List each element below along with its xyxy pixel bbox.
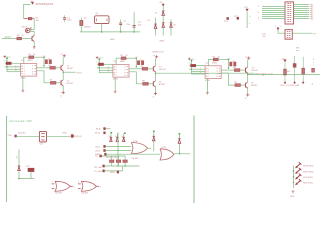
svg-text:OUT1: OUT1: [76, 72, 83, 74]
diode D11: [178, 133, 181, 154]
or-gate G1: [131, 140, 147, 160]
svg-text:IN_B: IN_B: [95, 133, 100, 135]
svg-text:1: 1: [208, 76, 209, 78]
svg-text:4: 4: [313, 59, 314, 61]
resistor R5 block2: [141, 66, 148, 70]
supply +5V block2: [96, 56, 104, 59]
capacitor C5 block2: [140, 59, 143, 64]
transistor T5: [246, 67, 259, 73]
left rail wire block1: [6, 57, 8, 72]
wire T2 emitter block1: [62, 86, 64, 91]
wire row E to G2: [125, 153, 160, 155]
resistor R15: [116, 156, 120, 166]
svg-text:1k: 1k: [33, 54, 35, 56]
transistor T2: [61, 80, 74, 86]
svg-text:74LS32: 74LS32: [81, 193, 89, 195]
svg-text:+5V: +5V: [17, 155, 19, 159]
net stub label B: [234, 16, 239, 20]
svg-text:BC547: BC547: [251, 85, 258, 87]
pullup diode D5: [293, 56, 296, 84]
wire T1 collector block1: [62, 57, 64, 64]
or-gate G4: [78, 181, 101, 194]
supply marker bottom block3: [245, 93, 250, 100]
wire IC pin down block1: [37, 71, 51, 83]
svg-text:RXD: RXD: [63, 133, 68, 135]
svg-text:GND: GND: [290, 196, 295, 198]
svg-text:1: 1: [116, 75, 117, 77]
net flag RXD: [71, 135, 82, 139]
svg-text:BC547: BC547: [159, 84, 166, 86]
svg-text:Not connected = GND: Not connected = GND: [9, 120, 32, 123]
svg-text:3: 3: [73, 187, 74, 189]
net flag row H: [94, 166, 122, 173]
diode D2: [155, 2, 165, 22]
resistor R1: [28, 17, 40, 21]
svg-text:4N35: 4N35: [27, 60, 33, 62]
wire C12 down: [30, 172, 32, 179]
svg-text:8: 8: [217, 71, 218, 73]
resistor R6 block1: [50, 80, 56, 85]
svg-text:1: 1: [258, 6, 259, 8]
net flag row E: [95, 153, 125, 156]
pullup R10: [281, 58, 291, 83]
svg-text:RX_LED: RX_LED: [94, 167, 102, 169]
left rail wire block2: [99, 58, 101, 73]
svg-text:1u: 1u: [140, 59, 142, 61]
wire T4 emitter block2: [155, 87, 157, 92]
label near D1: [148, 20, 152, 22]
svg-text:3: 3: [100, 187, 101, 189]
wire R5 to T5 block3: [240, 69, 246, 71]
resistor R5 block1: [49, 65, 56, 69]
gnd stub block3: [206, 78, 208, 92]
resistor R14: [110, 156, 114, 166]
svg-text:2: 2: [83, 182, 84, 184]
net flag row A: [96, 128, 111, 131]
wire T4 collector block2: [155, 73, 157, 80]
wire T5 collector block3: [247, 60, 249, 67]
diode D7: [109, 134, 113, 142]
svg-text:BC547: BC547: [67, 68, 74, 70]
svg-text:1u: 1u: [48, 58, 50, 60]
net flag near gates: [110, 171, 119, 174]
resonator box Q3: [95, 13, 110, 32]
SV1 pin labels: [310, 4, 313, 20]
svg-text:D4: D4: [173, 24, 175, 26]
diode D10: [153, 131, 156, 152]
svg-text:16MHz: 16MHz: [84, 26, 91, 28]
label MOSI/PS2 net text: [36, 4, 54, 6]
svg-text:1: 1: [24, 74, 25, 76]
net flag row F: [95, 155, 102, 158]
supply +5V block3: [188, 58, 196, 61]
diode D3: [162, 23, 165, 36]
long vertical bus wire: [193, 116, 195, 204]
power drop green text: [17, 155, 19, 159]
resistor R6 block3: [234, 82, 240, 87]
svg-text:1k: 1k: [218, 56, 220, 58]
ferrite IC5: [39, 131, 46, 145]
svg-text:4N35: 4N35: [212, 62, 218, 64]
capacitor C3: [133, 12, 143, 32]
ground symbol block2: [114, 91, 117, 93]
wire T2 collector block1: [62, 72, 64, 79]
svg-text:8: 8: [124, 70, 125, 72]
pin numbers block1: [14, 65, 17, 72]
wire from supply to R1: [24, 4, 31, 18]
capacitor C2: [119, 20, 131, 32]
svg-text:RST (SV1): RST (SV1): [303, 183, 313, 185]
wire T3 collector block2: [155, 58, 157, 65]
resistor R3 block2: [120, 55, 127, 59]
resistor R5 block3: [233, 67, 240, 71]
svg-text:4N35: 4N35: [205, 80, 211, 82]
capacitor C11 input block1: [4, 61, 11, 65]
svg-text:3: 3: [15, 70, 16, 72]
wire into SV2: [278, 29, 285, 33]
svg-text:2: 2: [56, 182, 57, 184]
wire G2 output: [174, 153, 191, 155]
wire IC top to R3 block2: [116, 58, 121, 64]
label RXD small: [63, 133, 68, 135]
svg-text:R13 4k7: R13 4k7: [18, 132, 26, 134]
svg-text:TX_LED: TX_LED: [94, 171, 102, 173]
optocoupler IC2: [21, 60, 37, 80]
svg-text:1k: 1k: [126, 55, 128, 57]
wire IC pin to R5 block2: [129, 68, 142, 70]
svg-text:8: 8: [32, 66, 33, 68]
svg-text:8: 8: [124, 67, 125, 69]
svg-text:+5V: +5V: [30, 1, 34, 3]
gnd stub block2: [114, 77, 116, 91]
LED D-LED1: [22, 27, 32, 33]
crystal Q2: [80, 18, 90, 32]
wire R6 to T4 block2: [149, 83, 154, 85]
svg-text:MOSI/PS(2)/OC2: MOSI/PS(2)/OC2: [36, 4, 54, 6]
svg-text:C6: C6: [228, 58, 230, 60]
net flag row G: [94, 165, 139, 169]
svg-text:MISO (SV1): MISO (SV1): [303, 171, 314, 173]
transistor T3: [153, 66, 166, 72]
LED L3: [296, 173, 314, 179]
label GND under bus: [110, 39, 115, 41]
svg-text:4N35: 4N35: [21, 78, 27, 80]
transistor T1: [61, 65, 74, 71]
svg-text:BC547: BC547: [67, 83, 74, 85]
svg-text:C4: C4: [43, 56, 45, 58]
wire T6 collector block3: [247, 75, 249, 82]
wire R6 to T2 block1: [56, 82, 61, 84]
svg-text:1u: 1u: [233, 61, 235, 63]
svg-text:2: 2: [281, 26, 282, 28]
supply arrow VCC right: [244, 7, 249, 12]
or-gate G3: [52, 181, 75, 194]
power drop wire: [18, 150, 20, 179]
capacitor C12 input block2: [96, 62, 103, 66]
connector SV2: [285, 30, 292, 40]
svg-text:SCK (SV1): SCK (SV1): [303, 177, 313, 179]
svg-text:7: 7: [313, 65, 314, 67]
pullup R11: [302, 57, 305, 84]
wire R3 to caps block3: [218, 59, 229, 69]
frame border line: [6, 116, 8, 202]
label left of pullups: [262, 75, 265, 77]
resistor R3 block3: [213, 56, 220, 60]
wire R1 to LED1: [33, 19, 35, 30]
diode D1: [154, 18, 157, 36]
junction dot near SV2: [275, 26, 282, 30]
label 3 resistors: [106, 157, 117, 159]
pullup R12 vertical text: [312, 59, 315, 86]
supply marker bottom block1: [60, 91, 65, 98]
supply +5V T5 block3: [245, 57, 251, 60]
wires to SV1 left: [262, 7, 285, 19]
wire OUT3 block3: [247, 73, 320, 75]
ground symbol block1: [22, 90, 25, 92]
wire R3 to caps block2: [126, 57, 137, 67]
ground symbol block3: [206, 93, 209, 95]
svg-text:CLK2: CLK2: [95, 151, 101, 153]
capacitor C12: [26, 166, 34, 172]
resistor R6 block2: [142, 81, 148, 86]
label under SV2: [296, 48, 300, 53]
capacitor C13 input block3: [189, 63, 196, 67]
svg-text:5: 5: [258, 18, 259, 20]
or-gate G1 output wire: [148, 147, 152, 149]
wire T6 emitter block3: [247, 88, 249, 93]
or-gate G2: [160, 147, 174, 160]
label OUT2: [255, 73, 273, 75]
svg-text:IC7A: IC7A: [133, 140, 138, 143]
svg-text:3: 3: [258, 12, 259, 14]
wire bottom join: [18, 178, 34, 180]
svg-text:GND: GND: [160, 41, 165, 43]
LED L4: [296, 179, 314, 185]
svg-text:4N35: 4N35: [113, 79, 119, 81]
svg-text:PS/2_CLK PS/2_DAT: PS/2_CLK PS/2_DAT: [280, 84, 300, 87]
svg-text:BC547: BC547: [252, 70, 259, 72]
svg-text:8: 8: [217, 76, 218, 78]
wire OUT1 block1: [62, 71, 75, 73]
capacitor C1: [63, 15, 73, 21]
supply +5V block1: [4, 55, 12, 58]
label under diodes: [153, 41, 165, 54]
diode D8: [115, 134, 119, 142]
svg-text:PB4: PB4: [310, 18, 313, 20]
wire R5 to T1 block1: [56, 67, 62, 69]
svg-text:IC7B: IC7B: [162, 147, 167, 149]
wire IC top to R3 block1: [24, 57, 29, 63]
resistor R16: [123, 156, 127, 166]
LED column wire: [293, 166, 295, 189]
net stub label A: [224, 17, 229, 23]
net flag row C: [95, 145, 131, 148]
input wires block2: [97, 64, 113, 73]
svg-text:8: 8: [124, 75, 125, 77]
svg-text:GND: GND: [110, 39, 115, 41]
wire R6 to T6 block3: [241, 84, 246, 86]
svg-text:IN_A: IN_A: [96, 128, 101, 131]
resistor R2: [17, 35, 25, 40]
svg-text:BC547: BC547: [159, 69, 166, 71]
net flag row B: [95, 132, 126, 135]
wire IC5 to RXD flag: [47, 136, 71, 138]
frame title green text: [9, 120, 32, 123]
wire R3 to caps block1: [34, 56, 45, 66]
wire SV2 to label: [292, 33, 317, 35]
wire OUT2 block2: [155, 72, 255, 74]
label OUT1: [76, 72, 83, 74]
diode D6: [18, 166, 21, 171]
label SJ1: [262, 33, 266, 37]
svg-text:BZX83-C5V1: BZX83-C5V1: [153, 52, 164, 54]
wire IC pin down block3: [221, 73, 235, 85]
svg-text:MOSI (SV1): MOSI (SV1): [303, 166, 314, 168]
wire R2 to Q1 base: [22, 38, 32, 40]
SV1 right wires: [294, 5, 310, 19]
SV1 left small labels: [258, 6, 259, 20]
resistor R3 block1: [28, 54, 35, 58]
ground below LED column: [290, 191, 295, 198]
green label MOSI: [5, 37, 11, 39]
net flag TXD: [7, 135, 16, 137]
wire Q1 emitter: [33, 42, 35, 47]
wire TXD to IC5: [17, 136, 40, 138]
svg-text:74LS32: 74LS32: [55, 193, 63, 195]
wire VCC stub: [247, 12, 252, 28]
ground below Q1: [33, 47, 36, 49]
svg-text:8: 8: [32, 69, 33, 71]
left rail wire block3: [191, 60, 193, 74]
input wires block1: [5, 63, 21, 72]
svg-text:LED1: LED1: [22, 27, 28, 29]
svg-text:1: 1: [275, 26, 276, 28]
svg-text:1: 1: [52, 182, 53, 184]
optocoupler IC4: [205, 62, 221, 82]
svg-text:1: 1: [78, 182, 79, 184]
transistor T6: [246, 82, 259, 88]
wire resistor tops: [102, 155, 126, 157]
svg-text:CLK1: CLK1: [95, 146, 101, 148]
wire IC pin to R5 block1: [37, 67, 50, 69]
pullup net labels: [280, 84, 300, 87]
capacitor C5 block3: [233, 61, 237, 66]
optocoupler IC3: [113, 61, 129, 81]
svg-text:TXD: TXD: [7, 135, 12, 137]
net flag row D: [95, 149, 131, 152]
svg-text:8: 8: [217, 68, 218, 70]
gnd bus wire: [80, 31, 140, 33]
svg-text:3: 3: [200, 73, 201, 75]
svg-text:3: 3: [108, 71, 109, 73]
svg-text:4N35: 4N35: [120, 61, 126, 63]
diode D9: [121, 134, 125, 142]
svg-text:8: 8: [32, 74, 33, 76]
wire IC top to R3 block3: [208, 60, 213, 66]
supply +5V T3 block2: [153, 55, 159, 58]
wire LED1 to Q1 collector: [30, 30, 34, 36]
wire R5 to T3 block2: [148, 68, 154, 70]
gnd stub block1: [22, 76, 24, 90]
svg-text:k: k: [313, 62, 314, 64]
transistor T4: [153, 81, 166, 87]
svg-text:VCC: VCC: [244, 7, 249, 9]
input wires block3: [189, 65, 205, 74]
wire R1 stubs: [24, 18, 35, 20]
connector SV1: [285, 2, 294, 24]
pin numbers block2: [108, 66, 109, 73]
supply +5V symbol: [30, 1, 35, 5]
svg-text:C5: C5: [135, 57, 137, 59]
svg-text:D2: D2: [155, 13, 157, 15]
supply marker bottom block2: [152, 92, 157, 99]
LED L2: [296, 168, 315, 174]
long vertical net wire: [117, 132, 119, 166]
transistor Q1: [32, 35, 34, 41]
capacitor C4 block2: [135, 57, 139, 65]
capacitor C5 block1: [48, 58, 52, 63]
label R13: [18, 132, 26, 134]
svg-text:RXD(1): RXD(1): [75, 136, 82, 138]
wire IC pin to R5 block3: [221, 69, 234, 71]
wire base net: [2, 38, 17, 40]
supply +5V T1 block1: [60, 54, 66, 57]
capacitor C4 block3: [228, 58, 233, 66]
wire IC pin down block2: [129, 72, 143, 84]
pin numbers block3: [200, 68, 201, 75]
svg-text:ser: ser: [296, 49, 299, 52]
svg-text:74LS32: 74LS32: [131, 158, 139, 160]
LED L1: [296, 162, 315, 168]
diode D4: [170, 20, 176, 36]
capacitor C4 block1: [43, 56, 48, 64]
